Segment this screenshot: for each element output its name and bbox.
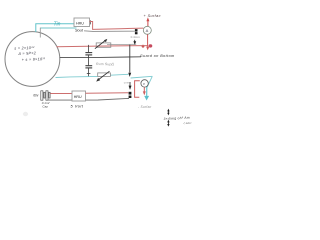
wire: cyan rail after R2	[111, 73, 129, 76]
wire: red rail from chamber	[57, 46, 148, 47]
small tie bar	[87, 73, 91, 75]
wire: red down from M1 to rail	[147, 34, 149, 46]
svg-text:A: A	[146, 28, 149, 33]
connector J2 terminals	[129, 92, 132, 95]
connector J1 terminals	[135, 29, 138, 32]
svg-text:+ Surfac: + Surfac	[144, 14, 161, 18]
meter M1 (ammeter circle)	[143, 26, 151, 34]
module U1 (HRU box)	[74, 18, 90, 27]
svg-text:Guard on Bottom: Guard on Bottom	[140, 54, 175, 58]
svg-text:HRU: HRU	[76, 22, 84, 26]
connector J2 arrow	[129, 86, 132, 90]
annotation arrow black at rail	[134, 40, 136, 42]
svg-text:HRU: HRU	[74, 95, 82, 99]
wire: teal electrode lead from chamber top	[40, 27, 76, 29]
capacitor C2	[88, 55, 90, 65]
guard wire black	[129, 45, 131, 73]
capacitor C1	[88, 45, 90, 52]
svg-text:cme: cme	[124, 80, 130, 84]
arrowhead red down at rail	[146, 47, 149, 51]
wire: middle electrode grey	[60, 56, 141, 59]
svg-text:Rum Sup(): Rum Sup()	[96, 62, 114, 66]
wire: cyan bottom rail from chamber	[56, 76, 98, 77]
variable resistor R1	[96, 43, 111, 47]
svg-text:5 Volt: 5 Volt	[71, 105, 84, 109]
meter M2 circle	[141, 80, 148, 87]
wire: grey S-out return to connector J1	[84, 30, 135, 33]
svg-text:Tin: Tin	[54, 21, 61, 27]
svg-text:s = 2×10⁴²: s = 2×10⁴²	[14, 46, 35, 51]
pin tick of U1	[90, 20, 92, 24]
annotation arrow up-down 1	[167, 110, 169, 114]
svg-text:Sout: Sout	[75, 28, 84, 32]
wire: red bottom rail to J2	[86, 92, 129, 95]
wire: red up from M1 with arrow	[147, 20, 149, 27]
annotation arrow up-down 2	[167, 121, 169, 125]
svg-text:0.4mm: 0.4mm	[131, 35, 141, 39]
ion chamber CH1 (large circle)	[5, 32, 60, 87]
svg-text:- Surfac: - Surfac	[138, 105, 152, 109]
wire: red battery to U2	[50, 93, 72, 95]
arrowhead up	[146, 17, 149, 21]
wire: red to meter M2	[135, 81, 140, 98]
svg-text:60v: 60v	[33, 94, 39, 98]
wire: cyan rail to right elbow	[131, 76, 153, 78]
chamber value labels	[14, 46, 46, 63]
battery B1 plates	[41, 91, 43, 100]
faint pencil smudge	[23, 112, 28, 116]
wire: red from U1 to meter M1	[90, 22, 144, 30]
wire: grey bottom rail	[48, 98, 129, 100]
cyan arrow down	[146, 87, 148, 97]
module U2 (5 Volt box)	[72, 91, 86, 101]
svg-text:/,om²: /,om²	[183, 121, 193, 125]
wire: cyan drop behind meter	[147, 76, 152, 87]
svg-text:Cap: Cap	[42, 105, 48, 109]
svg-text:v: v	[143, 82, 145, 86]
grey leader line above rail	[107, 43, 136, 45]
svg-text:+ s = 9×10³¹: + s = 9×10³¹	[22, 57, 46, 62]
junction dot red	[142, 45, 145, 48]
wire: red down from M2 with arrow	[143, 87, 145, 91]
variable resistor R2	[98, 73, 111, 77]
wire: cyan T-in from chamber top	[36, 24, 74, 32]
guard arrowhead	[128, 73, 131, 77]
svg-text:Δ = 5P×2: Δ = 5P×2	[17, 51, 36, 56]
